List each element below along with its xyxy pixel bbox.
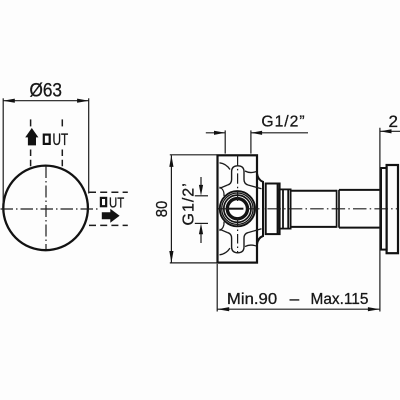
dimension G1/2' port ticks xyxy=(195,196,208,224)
svg-text:G1/2’: G1/2’ xyxy=(181,183,198,225)
side view vertical centerline xyxy=(237,156,239,253)
svg-text:Min.90: Min.90 xyxy=(227,291,277,308)
dimension 80 line with arrows xyxy=(170,155,172,262)
OUT right arrow (filled) xyxy=(102,209,120,223)
body north dome finger xyxy=(228,166,248,185)
body south dome finger xyxy=(228,233,248,253)
OUT up arrow (filled) xyxy=(25,128,38,145)
body web diagonals NW xyxy=(220,163,231,189)
hidden port line right (dashed) xyxy=(61,119,63,168)
dimension ø63 line with arrows xyxy=(3,100,89,102)
boss slot line xyxy=(228,208,243,210)
svg-text:–: – xyxy=(290,291,300,308)
svg-text:2: 2 xyxy=(389,112,398,131)
hidden outlet dashed lines right of circle xyxy=(89,192,128,225)
side view horizontal centerline xyxy=(219,208,399,210)
body web diagonals SW xyxy=(220,229,231,255)
dimension 80 extension lines xyxy=(170,155,217,263)
OUT label top (square O + UT) xyxy=(44,131,68,149)
dimension G1/2" extension lines xyxy=(225,130,251,153)
svg-text:80: 80 xyxy=(154,201,171,218)
extension tube section 1 xyxy=(290,191,336,227)
svg-text:Ø63: Ø63 xyxy=(30,80,63,101)
front view escutcheon circle xyxy=(3,166,88,251)
tube joint double line xyxy=(337,190,339,228)
boss inner thick ring xyxy=(227,199,247,219)
handle knob xyxy=(387,165,398,253)
OUT label right (square O + UT) xyxy=(101,194,124,211)
svg-text:UT: UT xyxy=(53,131,69,149)
adapter ring 2 (locknut) xyxy=(280,189,291,228)
adapter ring 1 (large nut) xyxy=(266,184,280,235)
hidden port line left (dashed) xyxy=(30,119,32,168)
handle flange ring xyxy=(381,168,387,250)
corner lobe SW xyxy=(220,222,225,231)
extension tube section 2 xyxy=(339,190,381,228)
svg-text:UT: UT xyxy=(109,194,124,211)
front view horizontal centerline xyxy=(1,208,98,210)
dimension ø63 extension lines xyxy=(3,98,89,203)
body web diagonals NE xyxy=(245,171,262,189)
dimension G1/2' port arrows xyxy=(200,177,202,243)
boss outer circle xyxy=(220,191,255,226)
dimension 2x top right extension line xyxy=(379,128,381,312)
svg-text:Max.115: Max.115 xyxy=(311,291,369,308)
dimension Min/Max line with arrows xyxy=(217,308,380,310)
dimension G1/2" lines with arrows xyxy=(206,132,308,134)
body web diagonals SE xyxy=(245,229,262,247)
boss ring 3 xyxy=(224,195,251,222)
body right face and shoulders xyxy=(257,174,263,245)
corner lobe NW xyxy=(220,187,225,196)
dimension Min/Max extension line left xyxy=(216,264,218,312)
boss ring 2 xyxy=(222,193,253,224)
dimension 2x line with arrow xyxy=(380,130,400,132)
side view mounting plate xyxy=(218,155,258,262)
front view vertical centerline xyxy=(45,166,47,250)
svg-text:G1/2”: G1/2” xyxy=(261,113,304,130)
